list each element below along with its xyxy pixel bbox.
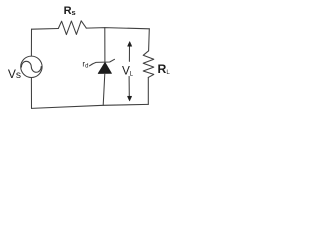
V_L up arrow	[128, 45, 130, 62]
zener diode cathode bar	[90, 59, 115, 66]
ac source Vs	[21, 56, 42, 77]
V_L down arrow	[128, 76, 130, 96]
wire zener branch bottom	[103, 74, 105, 106]
svg-text:Vs: Vs	[8, 67, 21, 81]
wire left side (source to bottom corner)	[30, 78, 32, 109]
wire zener branch top	[104, 28, 106, 62]
svg-text:rd: rd	[82, 60, 88, 70]
wire top-left segment (corner to Rs)	[32, 28, 59, 31]
wire bottom	[32, 104, 149, 108]
wire right side (RL to bottom corner)	[147, 77, 149, 104]
wire left side (top corner to source)	[30, 29, 32, 56]
svg-text:VL: VL	[122, 64, 133, 78]
svg-text:RL: RL	[158, 62, 171, 76]
resistor R_s	[58, 21, 86, 35]
wire top-right segment (Rs to top-right corner)	[86, 28, 149, 29]
wire right side (top corner to RL)	[148, 29, 151, 51]
svg-text:Rs: Rs	[64, 5, 76, 17]
resistor R_L	[143, 51, 154, 78]
zener diode anode triangle	[98, 62, 111, 73]
